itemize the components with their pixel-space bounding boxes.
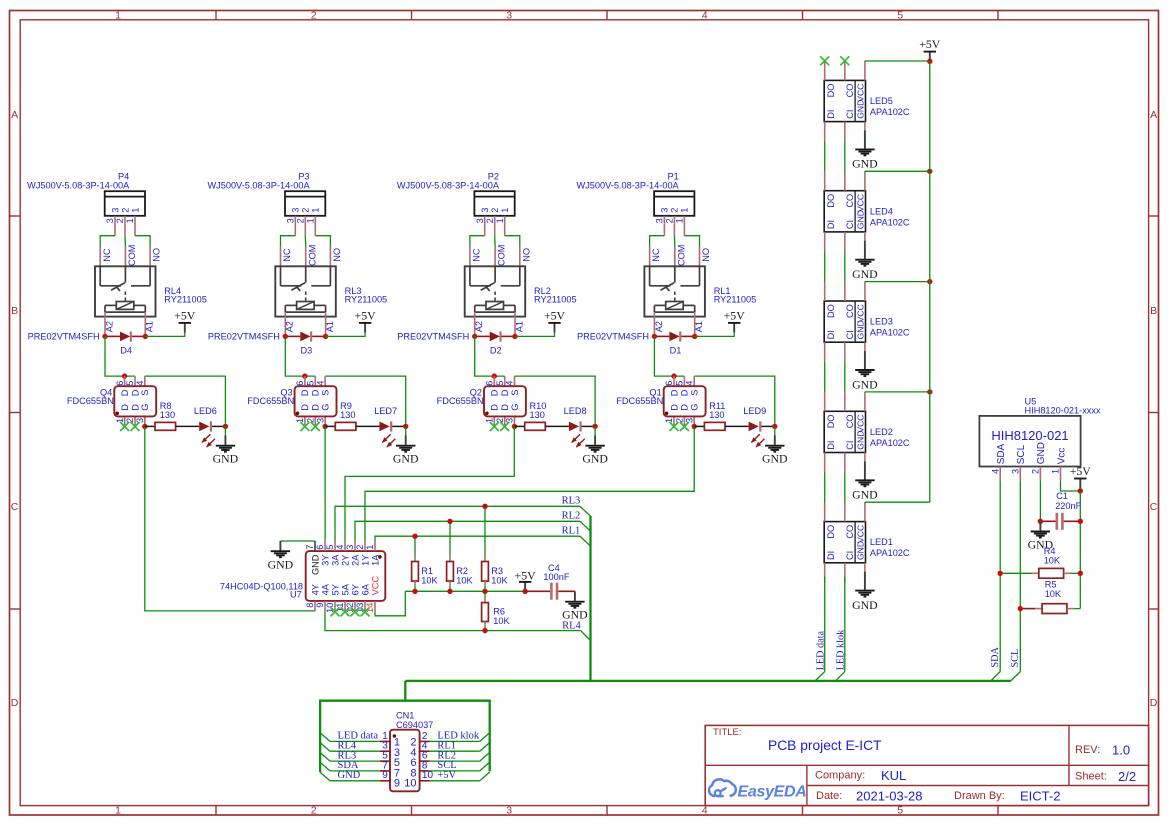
svg-text:2: 2 bbox=[670, 208, 680, 213]
svg-text:100nF: 100nF bbox=[543, 572, 569, 582]
svg-text:APA102C: APA102C bbox=[870, 217, 910, 227]
+5V supply (U5) bbox=[1070, 464, 1092, 491]
svg-text:RL2: RL2 bbox=[562, 511, 581, 522]
wire connector to relay bbox=[100, 236, 115, 247]
relay RL3 bbox=[275, 245, 387, 337]
svg-text:9: 9 bbox=[382, 770, 388, 781]
svg-text:SDA: SDA bbox=[990, 646, 1001, 667]
LED module LED3 APA102C bbox=[824, 281, 910, 361]
svg-text:1A: 1A bbox=[370, 554, 380, 566]
svg-text:6: 6 bbox=[485, 381, 495, 386]
CN1 pin 2 net LED klok bbox=[420, 740, 430, 742]
svg-text:G: G bbox=[320, 404, 330, 411]
svg-text:EasyEDA: EasyEDA bbox=[738, 784, 807, 801]
svg-text:4: 4 bbox=[990, 469, 1000, 474]
svg-text:DI: DI bbox=[826, 110, 836, 119]
bus around CN1 bbox=[320, 701, 490, 772]
svg-text:5: 5 bbox=[325, 545, 335, 550]
wire U7 pin3 to RL2 flag bbox=[355, 521, 580, 541]
svg-text:GND: GND bbox=[338, 770, 361, 781]
svg-text:RL4: RL4 bbox=[562, 621, 581, 632]
svg-text:10: 10 bbox=[404, 778, 416, 790]
svg-text:R6: R6 bbox=[493, 607, 505, 617]
bus tap to CN1 bbox=[404, 681, 406, 701]
svg-text:G: G bbox=[510, 404, 520, 411]
svg-text:9: 9 bbox=[315, 603, 325, 608]
svg-text:DO: DO bbox=[826, 304, 836, 318]
svg-text:2: 2 bbox=[495, 418, 505, 423]
svg-text:1: 1 bbox=[295, 418, 305, 423]
svg-text:GND: GND bbox=[852, 377, 878, 391]
resistor R11 130 bbox=[694, 401, 725, 430]
wire U7 pin9 to RL4 flag bbox=[325, 611, 581, 630]
svg-text:1: 1 bbox=[115, 9, 121, 21]
svg-text:FDC655BN: FDC655BN bbox=[67, 396, 114, 406]
wire coil to transistor drains bbox=[475, 336, 505, 376]
diode D4 PRE02VTM4SFH bbox=[28, 331, 148, 355]
svg-text:3: 3 bbox=[110, 208, 120, 213]
svg-text:2: 2 bbox=[1031, 469, 1041, 474]
svg-text:Drawn By:: Drawn By: bbox=[954, 790, 1005, 802]
svg-text:1: 1 bbox=[664, 418, 674, 423]
svg-text:COM: COM bbox=[307, 245, 317, 266]
svg-text:NC: NC bbox=[472, 248, 482, 262]
svg-text:1: 1 bbox=[125, 218, 135, 223]
connector P3 bbox=[207, 172, 325, 236]
svg-text:5Y: 5Y bbox=[330, 584, 340, 595]
svg-text:D: D bbox=[120, 404, 130, 411]
wire Q3 gate to U7 pin 6 bbox=[324, 427, 326, 542]
bus vertical (RL flags) bbox=[589, 516, 591, 681]
diode D3 PRE02VTM4SFH bbox=[208, 331, 328, 355]
svg-text:8: 8 bbox=[305, 603, 315, 608]
svg-text:6: 6 bbox=[664, 381, 674, 386]
CN1 pin 6 net RL2 bbox=[420, 760, 430, 762]
ground (LED1) bbox=[852, 572, 878, 612]
svg-text:GND: GND bbox=[310, 554, 320, 575]
svg-text:FDC655BN: FDC655BN bbox=[616, 396, 663, 406]
ground bbox=[224, 426, 226, 435]
svg-text:A1: A1 bbox=[145, 321, 155, 332]
svg-text:1: 1 bbox=[495, 218, 505, 223]
svg-text:WJ500V-5.08-3P-14-00A: WJ500V-5.08-3P-14-00A bbox=[207, 180, 310, 190]
wire source to gnd node bbox=[145, 376, 226, 426]
svg-text:LED2: LED2 bbox=[870, 427, 893, 437]
svg-text:REV:: REV: bbox=[1075, 744, 1100, 756]
CN1 pin 3 net RL4 bbox=[320, 743, 330, 752]
svg-text:D2: D2 bbox=[490, 345, 502, 355]
svg-text:+5V: +5V bbox=[919, 37, 941, 51]
svg-text:GND: GND bbox=[856, 320, 866, 339]
svg-text:LED5: LED5 bbox=[870, 96, 893, 106]
CN1 pin 8 net SCL bbox=[420, 770, 430, 772]
svg-text:VCC: VCC bbox=[856, 84, 866, 102]
svg-text:3: 3 bbox=[505, 418, 515, 423]
svg-text:4: 4 bbox=[702, 9, 708, 21]
svg-text:10K: 10K bbox=[1044, 556, 1061, 566]
svg-text:FDC655BN: FDC655BN bbox=[437, 396, 484, 406]
svg-text:NO: NO bbox=[701, 248, 711, 262]
wire VCC to +5V rail bbox=[865, 391, 930, 393]
svg-text:D1: D1 bbox=[670, 345, 682, 355]
svg-text:C694037: C694037 bbox=[396, 720, 433, 730]
svg-text:B: B bbox=[1150, 305, 1157, 317]
svg-text:3: 3 bbox=[345, 545, 355, 550]
EasyEDA logo bbox=[709, 779, 807, 800]
relay RL4 bbox=[95, 245, 207, 337]
svg-text:D: D bbox=[311, 389, 321, 396]
+5V supply bbox=[326, 333, 366, 337]
svg-text:5: 5 bbox=[675, 381, 685, 386]
svg-text:COM: COM bbox=[676, 245, 686, 266]
LED module LED5 APA102C bbox=[824, 61, 910, 141]
svg-text:1: 1 bbox=[115, 418, 125, 423]
svg-text:LED data: LED data bbox=[815, 631, 826, 671]
wire GND pin bbox=[1039, 480, 1041, 521]
svg-text:GND: GND bbox=[562, 607, 588, 621]
LED module LED4 APA102C bbox=[824, 171, 910, 251]
wire connector to relay bbox=[470, 236, 485, 247]
svg-text:1: 1 bbox=[1051, 469, 1061, 474]
svg-text:G: G bbox=[690, 404, 700, 411]
CN1 pin 1 net LED data bbox=[320, 733, 330, 742]
wire coil to transistor drains bbox=[105, 336, 135, 376]
svg-text:6: 6 bbox=[295, 381, 305, 386]
svg-text:SDA: SDA bbox=[996, 443, 1007, 464]
svg-text:2: 2 bbox=[311, 805, 317, 817]
svg-text:D: D bbox=[500, 404, 510, 411]
connector P4 bbox=[27, 172, 145, 236]
svg-text:RL1: RL1 bbox=[562, 526, 581, 537]
svg-text:2/2: 2/2 bbox=[1118, 769, 1136, 784]
wire source to gnd node bbox=[694, 376, 775, 426]
svg-text:5: 5 bbox=[125, 381, 135, 386]
svg-text:R3: R3 bbox=[491, 566, 503, 576]
svg-text:COM: COM bbox=[497, 245, 507, 266]
svg-text:1Y: 1Y bbox=[360, 555, 370, 566]
svg-text:LED7: LED7 bbox=[374, 406, 397, 416]
svg-text:2: 2 bbox=[120, 208, 130, 213]
svg-text:4: 4 bbox=[335, 545, 345, 550]
svg-text:D4: D4 bbox=[120, 345, 132, 355]
wire LED data down to bus bbox=[824, 577, 826, 672]
svg-text:VCC: VCC bbox=[856, 194, 866, 212]
wire chain DI/CI bbox=[824, 141, 826, 171]
svg-text:3A: 3A bbox=[330, 554, 340, 566]
svg-text:S: S bbox=[320, 390, 330, 396]
svg-text:130: 130 bbox=[340, 410, 355, 420]
svg-text:WJ500V-5.08-3P-14-00A: WJ500V-5.08-3P-14-00A bbox=[397, 180, 500, 190]
svg-text:CO: CO bbox=[845, 194, 855, 208]
svg-text:DO: DO bbox=[826, 525, 836, 539]
wire chain DI/CI bbox=[824, 252, 826, 282]
svg-text:2: 2 bbox=[301, 208, 311, 213]
ground (LED2) bbox=[852, 461, 878, 501]
LED LED6 bbox=[176, 406, 228, 447]
+5V supply bbox=[695, 333, 735, 337]
svg-text:1: 1 bbox=[115, 805, 121, 817]
svg-text:CI: CI bbox=[845, 441, 855, 450]
svg-text:1: 1 bbox=[311, 208, 321, 213]
svg-text:R1: R1 bbox=[421, 566, 433, 576]
svg-text:3: 3 bbox=[291, 208, 301, 213]
svg-text:2: 2 bbox=[355, 545, 365, 550]
ground (LED3) bbox=[852, 351, 878, 391]
wire chain DI/CI bbox=[824, 472, 826, 502]
svg-text:APA102C: APA102C bbox=[870, 548, 910, 558]
ground bbox=[405, 426, 407, 435]
svg-text:1: 1 bbox=[680, 208, 690, 213]
svg-text:U7: U7 bbox=[290, 590, 302, 600]
svg-text:D: D bbox=[130, 404, 140, 411]
svg-text:D: D bbox=[669, 404, 679, 411]
diode D1 PRE02VTM4SFH bbox=[577, 331, 697, 355]
svg-text:D: D bbox=[300, 404, 310, 411]
svg-text:RY211005: RY211005 bbox=[164, 295, 207, 305]
svg-text:3: 3 bbox=[506, 805, 512, 817]
svg-text:DI: DI bbox=[826, 220, 836, 229]
svg-text:KUL: KUL bbox=[881, 768, 906, 783]
svg-text:DI: DI bbox=[826, 441, 836, 450]
connector P1 bbox=[577, 172, 695, 236]
svg-text:S: S bbox=[690, 390, 700, 396]
svg-text:D: D bbox=[11, 697, 19, 709]
svg-text:NO: NO bbox=[332, 248, 342, 262]
svg-text:2Y: 2Y bbox=[340, 555, 350, 566]
svg-text:2: 2 bbox=[675, 418, 685, 423]
svg-text:CI: CI bbox=[845, 551, 855, 560]
resistor R8 130 bbox=[145, 401, 176, 430]
svg-text:4: 4 bbox=[315, 381, 325, 386]
+5V supply (rail) bbox=[515, 568, 537, 591]
wire Q2 gate to U7 pin 4 bbox=[345, 427, 514, 542]
svg-text:5: 5 bbox=[897, 9, 903, 21]
wire U7 pin1 to RL1 flag bbox=[375, 536, 580, 541]
svg-text:NC: NC bbox=[102, 248, 112, 262]
svg-text:D: D bbox=[680, 404, 690, 411]
svg-text:A2: A2 bbox=[104, 321, 114, 332]
svg-text:130: 130 bbox=[530, 410, 545, 420]
wire SDA down to bus bbox=[999, 480, 1001, 671]
relay RL2 bbox=[465, 245, 577, 337]
svg-text:GND: GND bbox=[852, 488, 878, 502]
resistor R5 10K bbox=[1018, 579, 1081, 613]
ground bbox=[774, 426, 776, 435]
resistor R6 10K bbox=[482, 591, 511, 633]
svg-text:2: 2 bbox=[485, 218, 495, 223]
svg-text:+5V: +5V bbox=[724, 309, 746, 323]
capacitor C1 220nF bbox=[1038, 491, 1083, 530]
svg-text:3: 3 bbox=[506, 9, 512, 21]
svg-text:R5: R5 bbox=[1045, 579, 1057, 589]
svg-text:2: 2 bbox=[311, 9, 317, 21]
wire VCC to +5V rail bbox=[865, 170, 930, 172]
svg-text:4: 4 bbox=[684, 381, 694, 386]
relay RL1 bbox=[644, 245, 756, 337]
svg-text:6: 6 bbox=[115, 381, 125, 386]
+5V rail vertical bbox=[929, 61, 931, 502]
svg-text:LED1: LED1 bbox=[870, 537, 893, 547]
svg-text:1: 1 bbox=[130, 208, 140, 213]
svg-text:3: 3 bbox=[475, 218, 485, 223]
svg-text:130: 130 bbox=[160, 410, 175, 420]
svg-text:PCB project E-ICT: PCB project E-ICT bbox=[768, 738, 882, 753]
svg-text:APA102C: APA102C bbox=[870, 107, 910, 117]
svg-text:S: S bbox=[510, 390, 520, 396]
svg-text:2: 2 bbox=[125, 418, 135, 423]
svg-text:HIH8120-021: HIH8120-021 bbox=[991, 428, 1068, 443]
right node vertical bbox=[1079, 491, 1081, 609]
svg-text:+5V: +5V bbox=[437, 770, 456, 781]
svg-text:S: S bbox=[140, 390, 150, 396]
resistor R1 10K bbox=[412, 534, 439, 595]
svg-text:10: 10 bbox=[422, 770, 434, 781]
svg-text:6Y: 6Y bbox=[350, 584, 360, 595]
wire VCC to +5V bbox=[865, 60, 930, 62]
svg-text:2: 2 bbox=[490, 208, 500, 213]
wire coil to transistor drains bbox=[654, 336, 684, 376]
svg-text:6A: 6A bbox=[360, 583, 370, 595]
svg-text:DI: DI bbox=[826, 330, 836, 339]
resistor R3 10K bbox=[482, 504, 509, 594]
svg-text:A: A bbox=[11, 109, 18, 121]
svg-text:3: 3 bbox=[684, 418, 694, 423]
svg-text:2021-03-28: 2021-03-28 bbox=[856, 789, 923, 804]
svg-text:GND: GND bbox=[582, 451, 608, 465]
svg-text:DO: DO bbox=[826, 415, 836, 429]
svg-text:Sheet:: Sheet: bbox=[1075, 771, 1107, 783]
svg-text:GND: GND bbox=[856, 431, 866, 450]
svg-text:2: 2 bbox=[306, 418, 316, 423]
svg-text:RL3: RL3 bbox=[562, 496, 581, 507]
svg-text:A2: A2 bbox=[654, 321, 664, 332]
svg-text:R4: R4 bbox=[1044, 546, 1056, 556]
wire Q1 gate to U7 pin 2 bbox=[365, 427, 694, 542]
svg-text:TITLE:: TITLE: bbox=[713, 727, 742, 738]
svg-text:A2: A2 bbox=[285, 321, 295, 332]
svg-text:5: 5 bbox=[495, 381, 505, 386]
svg-text:+5V: +5V bbox=[544, 309, 566, 323]
svg-text:4Y: 4Y bbox=[310, 584, 320, 595]
svg-text:GND: GND bbox=[852, 157, 878, 171]
no-connects DO CO bbox=[820, 56, 829, 65]
svg-text:NO: NO bbox=[152, 248, 162, 262]
svg-text:CO: CO bbox=[845, 84, 855, 98]
svg-text:LED klok: LED klok bbox=[835, 629, 846, 670]
svg-text:9: 9 bbox=[394, 778, 400, 790]
wire connector to relay bbox=[281, 236, 296, 247]
svg-text:VCC: VCC bbox=[856, 415, 866, 433]
svg-text:C: C bbox=[11, 501, 19, 513]
ground (C4) bbox=[562, 591, 588, 621]
svg-text:GND: GND bbox=[393, 451, 419, 465]
svg-text:GND: GND bbox=[856, 100, 866, 119]
svg-text:A1: A1 bbox=[514, 321, 524, 332]
svg-text:+5V: +5V bbox=[355, 309, 377, 323]
svg-text:PRE02VTM4SFH: PRE02VTM4SFH bbox=[397, 331, 469, 341]
wire source to gnd node bbox=[325, 376, 406, 426]
connector CN1 C694037 bbox=[390, 711, 433, 792]
svg-text:4: 4 bbox=[135, 381, 145, 386]
svg-text:CO: CO bbox=[845, 304, 855, 318]
svg-text:7: 7 bbox=[305, 545, 315, 550]
svg-text:DI: DI bbox=[826, 551, 836, 560]
wire chain DI/CI bbox=[824, 362, 826, 392]
svg-text:3: 3 bbox=[480, 208, 490, 213]
+5V rail wire bbox=[405, 590, 525, 592]
ground bbox=[594, 426, 596, 435]
IC U5 HIH8120-021 humidity sensor bbox=[979, 396, 1101, 480]
svg-text:C1: C1 bbox=[1056, 491, 1068, 501]
svg-text:Date:: Date: bbox=[816, 790, 842, 802]
LED LED9 bbox=[725, 406, 778, 447]
+5V supply (LED rail) bbox=[919, 37, 941, 61]
svg-text:CI: CI bbox=[845, 330, 855, 339]
bus horizontal bbox=[405, 680, 1011, 682]
svg-text:VCC: VCC bbox=[856, 525, 866, 543]
svg-text:GND: GND bbox=[852, 598, 878, 612]
svg-text:10K: 10K bbox=[456, 576, 473, 586]
svg-text:GND: GND bbox=[213, 451, 239, 465]
svg-text:1: 1 bbox=[675, 218, 685, 223]
svg-text:+5V: +5V bbox=[515, 568, 537, 582]
resistor R4 10K bbox=[998, 546, 1084, 578]
wire Q4 gate to U7 pin 8 bbox=[145, 427, 315, 611]
svg-text:B: B bbox=[11, 305, 18, 317]
svg-text:DO: DO bbox=[826, 84, 836, 98]
transistor Q4 FDC655BN bbox=[67, 376, 156, 431]
svg-text:D: D bbox=[1150, 697, 1158, 709]
svg-text:4A: 4A bbox=[320, 583, 330, 595]
svg-text:GND: GND bbox=[856, 541, 866, 560]
svg-text:1: 1 bbox=[500, 208, 510, 213]
svg-text:Vcc: Vcc bbox=[1056, 448, 1067, 465]
wire connector to relay bbox=[650, 236, 665, 247]
svg-text:A1: A1 bbox=[325, 321, 335, 332]
svg-text:COM: COM bbox=[127, 245, 137, 266]
svg-text:R2: R2 bbox=[456, 566, 468, 576]
svg-text:5A: 5A bbox=[340, 583, 350, 595]
svg-text:A: A bbox=[1150, 109, 1157, 121]
svg-text:+5V: +5V bbox=[1070, 464, 1092, 478]
svg-text:2: 2 bbox=[665, 218, 675, 223]
wire SCL down to bus bbox=[1019, 480, 1021, 671]
svg-text:G: G bbox=[140, 404, 150, 411]
svg-text:GND: GND bbox=[856, 210, 866, 229]
svg-text:D: D bbox=[500, 389, 510, 396]
svg-text:NC: NC bbox=[282, 248, 292, 262]
svg-text:NO: NO bbox=[521, 248, 531, 262]
svg-text:LED9: LED9 bbox=[743, 406, 766, 416]
svg-text:GND: GND bbox=[268, 558, 294, 572]
svg-text:D: D bbox=[130, 389, 140, 396]
svg-text:3: 3 bbox=[286, 218, 296, 223]
resistor R9 130 bbox=[325, 401, 356, 430]
transistor Q2 FDC655BN bbox=[437, 376, 526, 431]
svg-text:RY211005: RY211005 bbox=[534, 295, 577, 305]
svg-text:LED6: LED6 bbox=[194, 406, 217, 416]
svg-text:CO: CO bbox=[845, 525, 855, 539]
svg-text:D: D bbox=[490, 404, 500, 411]
CN1 pin 9 net GND bbox=[320, 772, 330, 781]
svg-text:2A: 2A bbox=[350, 554, 360, 566]
svg-text:LED3: LED3 bbox=[870, 317, 893, 327]
svg-text:3: 3 bbox=[660, 208, 670, 213]
svg-text:LED4: LED4 bbox=[870, 206, 893, 216]
CN1 pin 10 net +5V bbox=[420, 780, 430, 782]
wire VCC to +5V rail bbox=[865, 281, 930, 283]
ground (C1) bbox=[1028, 521, 1054, 551]
